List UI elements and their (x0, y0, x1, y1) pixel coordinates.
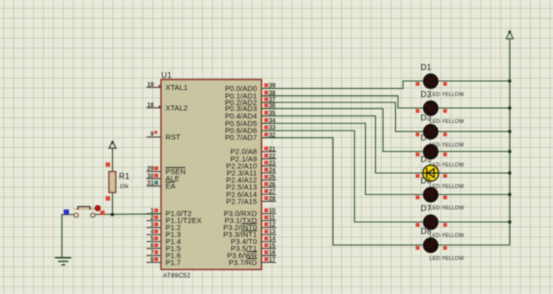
svg-text:17: 17 (269, 258, 276, 264)
svg-text:18: 18 (147, 103, 154, 109)
svg-text:D6: D6 (421, 176, 432, 185)
svg-text:23: 23 (269, 161, 276, 167)
svg-text:XTAL2: XTAL2 (166, 103, 188, 112)
svg-text:11: 11 (269, 216, 276, 222)
svg-text:LED-YELLOW: LED-YELLOW (430, 256, 464, 262)
svg-text:21: 21 (269, 147, 276, 153)
svg-text:14: 14 (269, 237, 276, 243)
svg-text:31: 31 (147, 181, 154, 187)
svg-text:U1: U1 (161, 71, 172, 80)
svg-text:24: 24 (269, 168, 276, 174)
svg-text:LED-YELLOW: LED-YELLOW (430, 119, 464, 125)
svg-text:P3.7/RD: P3.7/RD (229, 258, 257, 267)
svg-text:13: 13 (269, 230, 276, 236)
svg-text:19: 19 (147, 82, 154, 88)
svg-text:16: 16 (269, 251, 276, 257)
svg-text:D3: D3 (421, 113, 432, 122)
svg-text:28: 28 (269, 197, 276, 203)
svg-text:P1.7: P1.7 (166, 258, 181, 267)
svg-text:15: 15 (269, 244, 276, 250)
svg-text:29: 29 (147, 167, 154, 173)
svg-text:LED-YELLOW: LED-YELLOW (430, 233, 464, 239)
svg-text:10k: 10k (120, 184, 129, 190)
svg-text:26: 26 (269, 182, 276, 188)
svg-text:XTAL1: XTAL1 (166, 83, 188, 92)
svg-text:D5: D5 (421, 155, 432, 164)
svg-text:P2.7/A15: P2.7/A15 (226, 197, 257, 206)
svg-text:D1: D1 (421, 63, 432, 72)
svg-text:P0.7/AD7: P0.7/AD7 (225, 133, 257, 142)
svg-text:LED-YELLOW: LED-YELLOW (430, 92, 464, 98)
svg-text:27: 27 (269, 189, 276, 195)
svg-text:AT89C52: AT89C52 (163, 273, 191, 280)
svg-text:D4: D4 (421, 133, 432, 142)
svg-text:D7: D7 (421, 204, 432, 213)
svg-text:LED-YELLOW: LED-YELLOW (430, 206, 464, 212)
svg-text:22: 22 (269, 154, 276, 160)
svg-text:10: 10 (269, 209, 276, 215)
svg-text:25: 25 (269, 175, 276, 181)
svg-text:12: 12 (269, 223, 276, 229)
svg-text:EA: EA (166, 181, 176, 190)
svg-text:30: 30 (147, 174, 154, 180)
svg-text:D2: D2 (421, 90, 432, 99)
svg-text:R1: R1 (119, 172, 130, 181)
svg-text:D8: D8 (421, 227, 432, 236)
svg-text:RST: RST (166, 133, 181, 142)
